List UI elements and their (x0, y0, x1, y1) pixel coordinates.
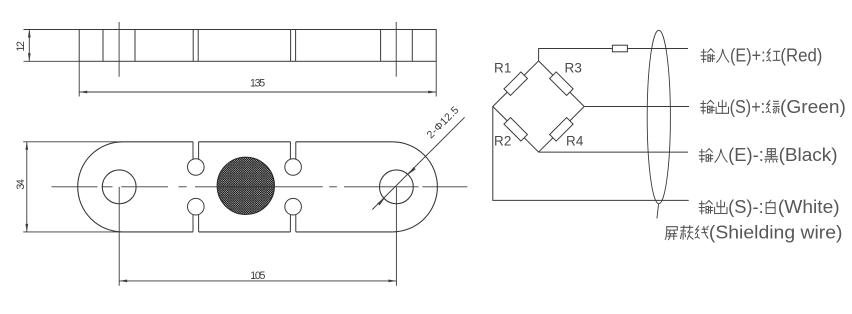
svg-text:34: 34 (15, 179, 27, 190)
svg-text:R3: R3 (565, 60, 582, 75)
svg-text:(Shielding wire): (Shielding wire) (709, 222, 843, 242)
svg-text:(Black): (Black) (779, 145, 838, 165)
svg-text:R4: R4 (566, 134, 584, 149)
svg-text:(Red): (Red) (780, 45, 822, 65)
svg-text:(S)+:: (S)+: (730, 97, 766, 117)
svg-text:R1: R1 (494, 60, 511, 75)
svg-text:(S)-:: (S)-: (728, 197, 764, 217)
svg-text:105: 105 (250, 270, 265, 282)
svg-text:12: 12 (15, 41, 27, 52)
svg-text:(E)-:: (E)-: (728, 145, 764, 165)
svg-text:(Green): (Green) (780, 97, 846, 117)
svg-text:R2: R2 (494, 134, 511, 149)
svg-text:135: 135 (250, 77, 265, 89)
svg-text:2-Φ12.5: 2-Φ12.5 (425, 104, 462, 141)
svg-text:(White): (White) (778, 197, 840, 217)
svg-text:(E)+:: (E)+: (730, 45, 766, 65)
